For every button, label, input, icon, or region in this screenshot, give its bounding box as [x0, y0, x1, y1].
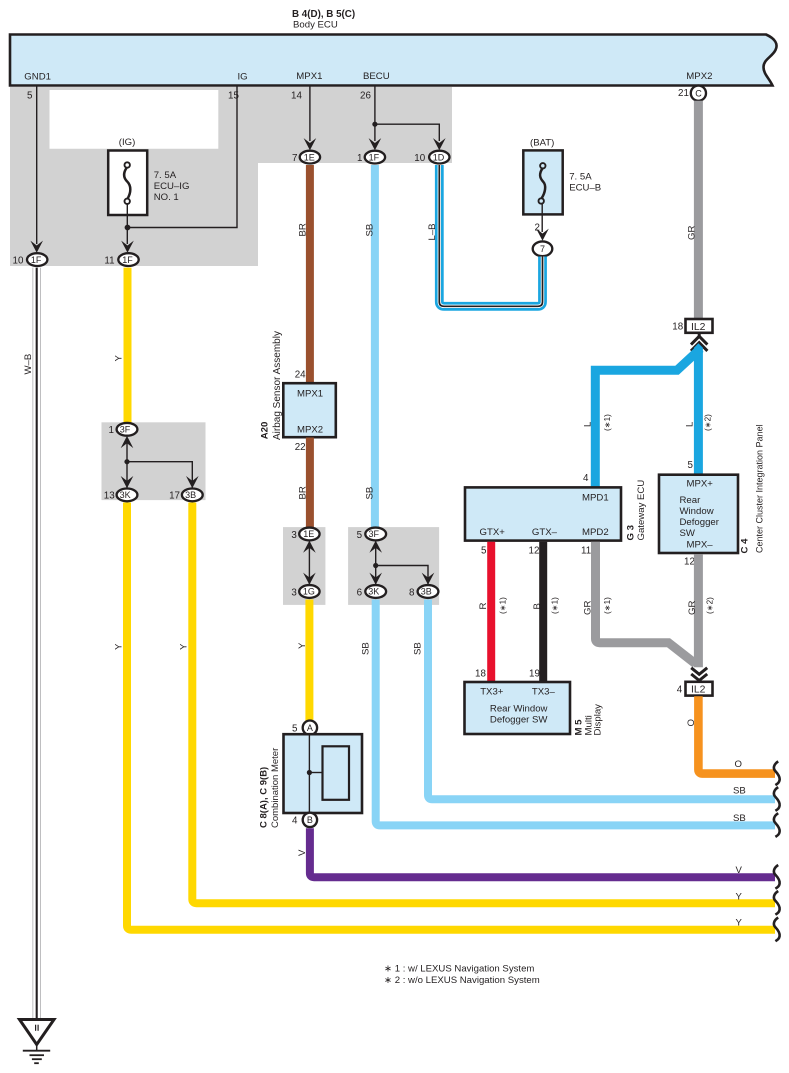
chevron junction under IL2 [691, 334, 707, 351]
svg-text:V: V [297, 849, 308, 856]
svg-text:IG: IG [238, 72, 248, 83]
svg-text:6: 6 [357, 587, 363, 598]
svg-text:15: 15 [228, 91, 239, 102]
wire GR MPD2 to IL2 [596, 542, 696, 664]
connector 17 3B [169, 489, 203, 502]
svg-text:1F: 1F [122, 255, 133, 265]
svg-text:5: 5 [27, 91, 33, 102]
svg-text:ECU–B: ECU–B [569, 183, 601, 194]
svg-text:B: B [307, 815, 313, 825]
svg-text:3K: 3K [120, 490, 131, 500]
svg-text:Center Cluster Integration Pan: Center Cluster Integration Panel [755, 424, 765, 553]
meter junction dot [307, 770, 312, 775]
meter internal wire [308, 735, 310, 813]
svg-text:Airbag Sensor Assembly: Airbag Sensor Assembly [272, 331, 283, 440]
connector 3 1E [291, 528, 319, 541]
wire GR MPX- to IL2 [694, 554, 703, 667]
Body ECU bar [10, 35, 777, 86]
arrow into connector 7 [536, 229, 549, 241]
svg-text:(BAT): (BAT) [530, 138, 554, 149]
connector B [303, 813, 317, 827]
ground symbol [20, 1020, 55, 1064]
svg-text:G 3: G 3 [626, 525, 637, 540]
svg-text:3: 3 [291, 587, 297, 598]
arrow into 17 3B [186, 476, 199, 488]
svg-text:GTX–: GTX– [532, 527, 558, 538]
wire IG pin15 down and across to fuse output [128, 86, 238, 228]
svg-text:A20: A20 [260, 422, 271, 440]
connector 1 3F [109, 423, 138, 448]
svg-text:MPD1: MPD1 [582, 493, 609, 504]
svg-text:5: 5 [292, 724, 298, 735]
svg-text:3B: 3B [185, 490, 196, 500]
wire GND1 pin5 down [36, 86, 38, 244]
svg-text:IL2: IL2 [691, 322, 706, 333]
svg-text:3K: 3K [368, 587, 379, 597]
svg-text:7: 7 [540, 244, 545, 254]
gray box around connectors 3F/3K/3B (right) [348, 527, 439, 605]
svg-text:Gateway ECU: Gateway ECU [636, 480, 647, 541]
wire junction 3F to 3K/3B (right box) [375, 547, 377, 590]
svg-text:1G: 1G [303, 587, 315, 597]
svg-text:4: 4 [292, 816, 298, 827]
arrow into 10 1F [30, 241, 43, 253]
svg-text:BR: BR [298, 223, 309, 236]
connector 7 1E [292, 151, 320, 164]
svg-text:18: 18 [475, 669, 486, 680]
svg-text:MPX–: MPX– [687, 539, 714, 550]
svg-text:19: 19 [529, 669, 540, 680]
svg-text:C: C [695, 88, 702, 98]
svg-text:MPX1: MPX1 [296, 71, 322, 82]
svg-text:B: B [532, 603, 543, 609]
wire junction 3F to 3K/3B [126, 443, 128, 490]
svg-text:BR: BR [298, 486, 309, 499]
connector 10 1D [414, 151, 449, 164]
junction dot fuse/IG [125, 225, 131, 231]
svg-text:Rear Window: Rear Window [490, 703, 548, 714]
svg-text:C 4: C 4 [740, 538, 751, 554]
wire BR 1E to A20 [306, 165, 314, 385]
wire B GTX- to TX3- [539, 542, 547, 684]
svg-text:SB: SB [733, 813, 746, 824]
svg-text:10: 10 [13, 255, 24, 266]
svg-text:GR: GR [583, 601, 594, 615]
svg-text:17: 17 [169, 491, 180, 502]
fuse ECU-IG box [108, 151, 147, 216]
junction dot [373, 563, 378, 568]
arrow into 7 1E [304, 138, 317, 150]
svg-text:1: 1 [109, 425, 114, 436]
wire BR A20 to 1E [306, 438, 314, 529]
wire L (*1) branch to MPD1 [595, 349, 700, 488]
svg-text:Rear: Rear [680, 495, 702, 506]
svg-text:GR: GR [687, 226, 698, 240]
svg-text:Y: Y [114, 643, 125, 650]
wire fuse BAT output [541, 204, 543, 232]
svg-text:C 8(A), C 9(B): C 8(A), C 9(B) [259, 767, 270, 828]
svg-text:13: 13 [104, 491, 115, 502]
wire SB 1F down [371, 165, 379, 528]
junction dot BECU branch [372, 122, 377, 127]
ecu A20 Airbag Sensor Assembly box [283, 383, 336, 437]
svg-text:L: L [685, 421, 696, 427]
wire branch to 17 3B [127, 462, 192, 490]
wire L-B from 1D loop to connector 7 [439, 165, 542, 306]
connector 10 1F [13, 253, 48, 266]
svg-text:(∗1): (∗1) [550, 597, 559, 614]
svg-text:Y: Y [736, 892, 743, 903]
svg-text:1: 1 [357, 153, 362, 164]
svg-text:14: 14 [291, 91, 302, 102]
svg-text:MPX2: MPX2 [297, 425, 323, 436]
svg-text:3F: 3F [120, 425, 131, 435]
svg-text:11: 11 [104, 255, 114, 266]
svg-text:MPX+: MPX+ [687, 479, 714, 490]
wire branch to 8 3B [376, 566, 428, 591]
arrow into 13 3K [121, 476, 134, 488]
svg-text:O: O [686, 719, 697, 726]
arrow into 8 3B [422, 573, 435, 585]
ecu C4 Center Cluster Integration Panel box [659, 475, 738, 553]
connector 7 [533, 241, 553, 256]
svg-text:(∗2): (∗2) [704, 414, 713, 431]
wire SB 6 3K down and right [376, 600, 775, 826]
arrow into 1 1F [369, 138, 382, 150]
svg-text:Y: Y [297, 642, 308, 649]
junction block shading (main gray area under Body ECU) [10, 87, 452, 266]
connector 13 3K [104, 489, 138, 502]
connector 6 3K [357, 585, 387, 598]
double arrow 1E to 1G [303, 541, 316, 585]
svg-text:O: O [735, 759, 742, 770]
svg-text:8: 8 [409, 587, 415, 598]
svg-text:GND1: GND1 [24, 72, 51, 83]
svg-text:BECU: BECU [363, 71, 390, 82]
svg-text:Y: Y [736, 918, 743, 929]
connector C on MPX2 [691, 86, 706, 101]
svg-text:SW: SW [680, 528, 696, 539]
arrow into 11 1F [121, 241, 134, 253]
svg-text:5: 5 [481, 546, 487, 557]
wire branch to 1D [375, 124, 439, 141]
connector 5 3F [357, 528, 387, 553]
svg-text:V: V [736, 865, 743, 876]
connector 3 1G [291, 585, 319, 598]
svg-text:TX3+: TX3+ [480, 686, 504, 697]
svg-text:R: R [478, 603, 489, 610]
svg-text:MPD2: MPD2 [582, 527, 609, 538]
svg-text:22: 22 [295, 442, 306, 453]
svg-text:4: 4 [677, 685, 683, 696]
svg-text:(∗1): (∗1) [603, 597, 612, 614]
svg-text:B 4(D), B 5(C): B 4(D), B 5(C) [292, 9, 355, 20]
wire V meter to right edge [310, 828, 775, 877]
svg-text:1E: 1E [304, 152, 315, 162]
svg-text:W–B: W–B [23, 354, 34, 375]
svg-text:SB: SB [733, 786, 746, 797]
fuse ECU-IG symbol [124, 162, 130, 204]
svg-text:1E: 1E [303, 529, 314, 539]
svg-text:MPX2: MPX2 [686, 71, 712, 82]
wire fuse IG output [126, 204, 128, 244]
svg-text:11: 11 [581, 546, 591, 557]
svg-text:GTX+: GTX+ [480, 527, 506, 538]
wire W-B to ground [33, 268, 41, 1020]
svg-text:12: 12 [529, 546, 540, 557]
wire L (*2) IL2 to MPX+ [694, 343, 703, 475]
svg-text:10: 10 [414, 153, 425, 164]
svg-text:3: 3 [291, 530, 297, 541]
svg-text:Body ECU: Body ECU [293, 20, 338, 31]
arrow into 10 1D [433, 138, 446, 150]
break symbol SB2 [774, 813, 780, 837]
gray box around connectors 1E/1G [283, 527, 325, 605]
svg-text:18: 18 [672, 321, 683, 332]
break symbol SB1 [774, 787, 780, 811]
svg-text:12: 12 [684, 557, 695, 568]
svg-text:(IG): (IG) [119, 137, 136, 148]
junction dot [124, 459, 129, 464]
svg-text:Y: Y [179, 643, 190, 650]
svg-text:∗ 2 : w/o LEXUS Navigation Sys: ∗ 2 : w/o LEXUS Navigation System [384, 975, 540, 986]
chevron junction above IL2 [691, 668, 707, 684]
ecu M5 Multi Display box [465, 682, 571, 734]
svg-text:5: 5 [357, 530, 363, 541]
wire Y 11 1F to 3F [124, 268, 132, 424]
wire Y 17 3B down and right [192, 503, 775, 904]
combination meter box [284, 734, 363, 813]
svg-text:(∗1): (∗1) [498, 597, 507, 614]
svg-text:7. 5A: 7. 5A [569, 172, 592, 183]
svg-text:1D: 1D [433, 152, 445, 162]
svg-text:TX3–: TX3– [532, 686, 556, 697]
break symbol Y1 [774, 891, 780, 915]
break symbol Y2 [774, 918, 780, 942]
fuse ECU-B box [523, 150, 562, 214]
gray box around connectors 3F/3K/3B (left) [102, 422, 206, 500]
svg-text:IL2: IL2 [691, 685, 706, 696]
wire BECU pin26 down [374, 86, 376, 141]
connector 18 IL2 [672, 319, 712, 333]
svg-text:Y: Y [114, 355, 125, 362]
svg-text:L–B: L–B [427, 223, 438, 240]
ecu G3 Gateway ECU box [465, 487, 621, 540]
svg-text:SB: SB [413, 642, 424, 655]
connector 8 3B [409, 585, 438, 598]
connector 11 1F [104, 253, 138, 266]
svg-text:24: 24 [295, 370, 306, 381]
svg-text:SB: SB [365, 224, 376, 237]
arrow into 6 3K [369, 573, 382, 585]
svg-text:A: A [307, 723, 313, 733]
svg-text:Defogger SW: Defogger SW [490, 714, 549, 725]
svg-text:21: 21 [678, 88, 689, 99]
svg-text:3B: 3B [421, 587, 432, 597]
svg-text:(∗2): (∗2) [705, 597, 714, 614]
connector 4 IL2 [677, 682, 713, 696]
svg-text:1F: 1F [31, 255, 42, 265]
svg-text:7. 5A: 7. 5A [154, 170, 177, 181]
wire R GTX+ to TX3+ [487, 542, 495, 684]
svg-text:MPX1: MPX1 [297, 389, 323, 400]
svg-text:7: 7 [292, 153, 297, 164]
svg-text:(∗1): (∗1) [603, 414, 612, 431]
wire MPX1 pin14 down [309, 86, 311, 141]
svg-text:Display: Display [593, 704, 604, 736]
svg-text:SB: SB [361, 642, 372, 655]
svg-text:L: L [583, 421, 594, 427]
svg-text:1F: 1F [369, 152, 380, 162]
wire Y 13 3K down and right [127, 503, 775, 930]
svg-text:∗ 1 : w/ LEXUS Navigation Syst: ∗ 1 : w/ LEXUS Navigation System [384, 964, 534, 975]
svg-text:4: 4 [583, 473, 589, 484]
fuse ECU-B symbol [539, 163, 546, 204]
svg-text:SB: SB [365, 487, 376, 500]
meter indicator rectangle [323, 746, 350, 800]
break symbol V [774, 865, 780, 889]
wire GR MPX2 down [694, 101, 703, 319]
svg-text:26: 26 [360, 91, 371, 102]
wire SB 8 3B down and right [428, 600, 775, 800]
meter junction link [309, 772, 322, 774]
svg-text:3F: 3F [369, 529, 380, 539]
svg-text:ECU–IG: ECU–IG [154, 181, 190, 192]
svg-text:5: 5 [688, 460, 694, 471]
svg-text:Window: Window [680, 506, 714, 517]
wire O IL2 to right edge [698, 696, 775, 773]
svg-text:NO. 1: NO. 1 [154, 192, 179, 203]
break symbol O [774, 761, 780, 785]
svg-text:Defogger: Defogger [680, 517, 720, 528]
svg-text:GR: GR [687, 601, 698, 615]
connector A [303, 721, 317, 735]
svg-text:Combination Meter: Combination Meter [270, 748, 281, 828]
connector 1 1F [357, 151, 385, 164]
wire Y 1G to combination meter [305, 600, 313, 722]
